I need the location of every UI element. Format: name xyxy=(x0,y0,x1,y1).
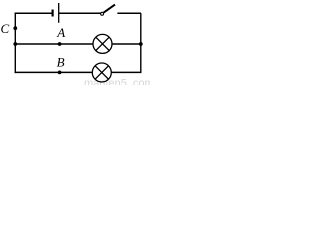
svg-text:B: B xyxy=(57,55,65,70)
svg-text:C: C xyxy=(1,21,10,36)
svg-text:A: A xyxy=(56,25,65,40)
